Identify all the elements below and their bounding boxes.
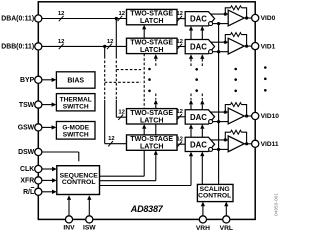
bus width marker 12 (DAC 4 input) — [177, 142, 182, 147]
wire sequence control bus line 1 — [100, 175, 145, 177]
svg-text:AD8387: AD8387 — [130, 204, 164, 214]
wire R/L input — [42, 191, 52, 193]
wire latch control line A (between latch4 and latch3) — [143, 129, 145, 135]
svg-text:LATCH: LATCH — [140, 143, 164, 151]
DAC D1 complementary output bubble — [209, 22, 213, 26]
wire DBB bus horizontal — [42, 45, 127, 47]
two-stage latch U4 — [127, 135, 178, 150]
wire latch 1 to DAC 1 — [177, 18, 185, 20]
node feedback-input junction 3 — [224, 111, 227, 114]
wire DAC 4 bubble to amplifier inverting input — [213, 148, 229, 150]
sequence control block — [57, 166, 100, 195]
node bubble bus junction 2 — [217, 50, 220, 53]
node feedback-input junction 4 — [224, 138, 227, 141]
wire scaling control to DAC4 — [201, 156, 203, 184]
wire latch 3 to DAC 3 — [177, 116, 185, 118]
pin XFR — [35, 177, 42, 184]
wire DBB vertical bus to latch 4 — [104, 46, 106, 56]
wire latch 2 to DAC 2 — [177, 46, 185, 48]
wire DAC reference line (sequence) between DAC4 and DAC3 — [190, 129, 192, 138]
svg-text:12: 12 — [58, 39, 65, 45]
bus width marker 12 (latch 4 input) — [108, 141, 113, 146]
svg-text:LATCH: LATCH — [140, 116, 164, 124]
bus width marker 12 (DAC 3 input) — [177, 114, 182, 119]
wire DAC reference line (sequence) dashed with arrow (omitted channels) — [190, 94, 192, 100]
ellipsis dots (amplifier column) — [234, 68, 237, 71]
pin BYP — [35, 76, 42, 83]
op-amp A4 — [228, 136, 244, 152]
DAC D3 — [185, 110, 214, 124]
svg-text:ISW: ISW — [83, 224, 96, 231]
wire DBB dashed stub to omitted latches — [105, 81, 141, 83]
wire DAC 2 output to amplifier input — [211, 41, 229, 43]
DAC D4 — [185, 137, 214, 151]
bus width marker 12 (DAC 1 input) — [177, 16, 182, 21]
svg-text:LATCH: LATCH — [140, 46, 164, 54]
DAC D4 complementary output bubble — [209, 147, 213, 151]
pin DBA(0:11) — [35, 15, 42, 22]
wire DSW to sequence control — [42, 151, 79, 153]
node output junction 2 — [245, 45, 248, 48]
DAC D1 — [185, 12, 214, 26]
wire TSW to thermal switch — [42, 104, 52, 106]
op-amp A2 — [228, 38, 244, 54]
svg-text:TSW: TSW — [19, 102, 35, 109]
svg-text:SWITCH: SWITCH — [63, 131, 89, 138]
node output junction 3 — [245, 114, 248, 117]
two-stage latch U2 — [127, 38, 178, 53]
svg-text:GSW: GSW — [18, 125, 35, 132]
svg-text:VID11: VID11 — [261, 141, 279, 148]
wire DAC reference line (sequence) dashed arrow into DAC2 — [189, 54, 193, 59]
pin VID0 — [252, 14, 259, 21]
feedback loop wire A3 — [225, 105, 230, 113]
svg-text:R/L: R/L — [23, 189, 34, 196]
wire amplifier 4 output — [244, 143, 251, 145]
wire common reference bus (DAC bubbles to scaling control) — [218, 24, 220, 185]
svg-text:LATCH: LATCH — [140, 17, 164, 25]
wire sequence control bus line 2 — [100, 180, 156, 182]
svg-text:DAC: DAC — [190, 113, 207, 122]
wire DAC 2 bubble to amplifier inverting input — [213, 51, 229, 53]
pin TSW — [35, 101, 42, 108]
DAC D2 — [185, 40, 214, 54]
svg-text:DBA(0:11): DBA(0:11) — [1, 16, 34, 23]
svg-text:12: 12 — [176, 39, 183, 45]
node feedback-input junction 1 — [224, 13, 227, 16]
op-amp A3 — [228, 108, 244, 124]
wire CLK input — [42, 168, 52, 170]
node output junction 4 — [245, 142, 248, 145]
wire DAC 3 bubble to amplifier inverting input — [213, 121, 229, 123]
g-mode switch block — [56, 122, 95, 140]
feedback loop wire A4 — [225, 132, 230, 140]
pin R/L — [35, 188, 42, 195]
wire DAC 3 output to amplifier input — [211, 111, 229, 113]
wire DAC reference line (scaling) between DAC4 and DAC3 — [201, 129, 203, 138]
svg-text:12: 12 — [119, 11, 126, 17]
node bubble bus junction 3 — [217, 120, 220, 123]
wire amplifier 3 output — [244, 115, 251, 117]
svg-text:DAC: DAC — [190, 15, 207, 24]
feedback resistor R4 — [231, 130, 242, 134]
svg-text:VRL: VRL — [220, 225, 233, 232]
node bubble bus junction 4 — [217, 148, 220, 151]
wire latch control line A dashed (omitted channels) — [143, 54, 145, 109]
svg-text:12: 12 — [58, 11, 65, 17]
pin DSW — [35, 148, 42, 155]
pin VID11 — [252, 140, 259, 147]
bus width marker 12 (DBB left) — [59, 44, 64, 49]
thermal switch block — [56, 94, 95, 111]
pin VID1 — [252, 43, 259, 50]
pin VID10 — [252, 112, 259, 119]
svg-text:XFR: XFR — [20, 178, 34, 185]
svg-text:12: 12 — [107, 39, 114, 45]
two-stage latch U3 — [127, 109, 178, 124]
feedback loop wire A1 — [225, 8, 230, 14]
wire latch control line A (between latch2 and latch1) — [143, 29, 145, 38]
pin CLK — [35, 165, 42, 172]
pin DBB(0:11) — [35, 43, 42, 50]
feedback resistor R2 — [231, 33, 242, 37]
node DBA bus junction — [115, 17, 118, 20]
svg-text:SWITCH: SWITCH — [63, 104, 89, 111]
wire DBA dashed stub to omitted latches — [116, 69, 141, 71]
bus width marker 12 (DBB at latch) — [107, 44, 112, 49]
wire DAC reference line (scaling) dashed with arrow (omitted channels) — [201, 94, 203, 100]
wire VRL to scaling control — [225, 206, 227, 219]
wire latch 4 to DAC 4 — [177, 143, 185, 145]
wire latch control line B (between latch4 and latch3) — [155, 124, 157, 135]
node feedback-input junction 2 — [224, 41, 227, 44]
feedback resistor R3 — [231, 103, 242, 107]
feedback loop wire A2 — [225, 35, 230, 43]
op-amp A1 — [228, 10, 244, 26]
wire XFR input — [42, 179, 52, 181]
svg-text:VID10: VID10 — [261, 113, 280, 120]
wire DAC 4 output to amplifier input — [211, 139, 229, 141]
wire amplifier 1 output — [244, 17, 251, 19]
feedback resistor R1 — [231, 6, 242, 10]
wire INV to sequence control — [68, 200, 70, 220]
wire amplifier 2 output — [244, 45, 251, 47]
svg-text:BIAS: BIAS — [67, 77, 84, 84]
scaling control block — [197, 184, 233, 201]
svg-text:12: 12 — [108, 136, 115, 142]
svg-text:DAC: DAC — [190, 43, 207, 52]
svg-text:CONTROL: CONTROL — [62, 179, 96, 186]
pin GSW — [35, 124, 42, 131]
DAC D3 complementary output bubble — [209, 120, 213, 124]
two-stage latch U1 — [127, 9, 178, 24]
wire DAC 1 bubble to amplifier inverting input — [213, 23, 229, 25]
ellipsis dots (VID label column) — [264, 66, 267, 69]
svg-text:04953-001: 04953-001 — [273, 193, 279, 216]
ellipsis dots (DAC column) — [195, 68, 198, 71]
svg-text:12: 12 — [176, 11, 183, 17]
svg-text:BYP: BYP — [20, 77, 35, 84]
bus width marker 12 (DAC 2 input) — [177, 44, 182, 49]
bus width marker 12 (DBA at latch) — [117, 16, 122, 21]
svg-text:12: 12 — [176, 137, 183, 143]
wire DAC reference line (scaling) dashed arrow into DAC2 — [200, 54, 204, 59]
wire VRH to scaling control — [202, 206, 204, 219]
chip outline AD8387 — [38, 2, 255, 220]
wire BYP to bias — [42, 79, 52, 81]
svg-text:CLK: CLK — [20, 166, 34, 173]
svg-text:VID0: VID0 — [261, 15, 276, 22]
wire sequence control bus line 3 — [100, 185, 192, 187]
bus width marker 12 (latch 3 input) — [118, 115, 123, 120]
wire GSW to g-mode switch — [42, 126, 52, 128]
wire DBA vertical bus to latch 3 — [115, 19, 117, 57]
svg-text:12: 12 — [118, 110, 125, 116]
svg-text:CONTROL: CONTROL — [198, 193, 231, 200]
wire latch control line B dashed with arrow (omitted channels) — [155, 94, 157, 100]
bus width marker 12 (DBA left) — [59, 16, 64, 21]
ellipsis dots (latch column) — [148, 68, 151, 71]
svg-text:INV: INV — [63, 224, 75, 231]
DAC D2 complementary output bubble — [209, 50, 213, 54]
wire DBA bus horizontal — [42, 18, 127, 20]
bias block BIAS — [56, 72, 95, 88]
wire ISW to sequence control — [88, 200, 90, 220]
node DBB bus junction — [103, 45, 106, 48]
node output junction 1 — [245, 16, 248, 19]
node bubble bus junction 1 — [217, 22, 220, 25]
wire DAC reference line (scaling) between DAC2 and DAC1 — [201, 31, 203, 40]
svg-text:VRH: VRH — [196, 225, 210, 232]
svg-text:DAC: DAC — [190, 140, 207, 149]
svg-text:12: 12 — [176, 109, 183, 115]
svg-text:VID1: VID1 — [261, 43, 276, 50]
wire latch control line B arrow into latch 2 — [154, 54, 158, 59]
wire DAC 1 output to amplifier input — [211, 13, 229, 15]
svg-text:DSW: DSW — [18, 149, 35, 156]
wire DAC reference line (sequence) between DAC2 and DAC1 — [190, 31, 192, 40]
svg-text:DBB(0:11): DBB(0:11) — [1, 44, 34, 51]
